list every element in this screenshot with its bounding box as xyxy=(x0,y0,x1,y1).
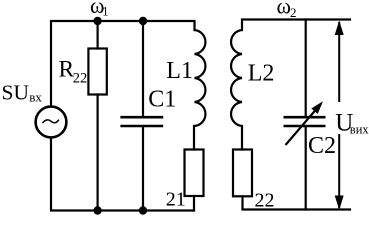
wire C2 bottom xyxy=(305,127,307,209)
wire R22 top xyxy=(96,21,98,49)
wire R22 bottom xyxy=(96,95,98,211)
svg-text:ω: ω xyxy=(277,0,291,19)
inductor L2 xyxy=(231,30,242,126)
svg-text:вих: вих xyxy=(350,123,369,137)
arrow through C2 xyxy=(286,110,317,146)
svg-text:21: 21 xyxy=(166,189,186,211)
capacitor C1 xyxy=(120,117,163,126)
svg-text:22: 22 xyxy=(255,189,275,211)
wire L2 to resistor 22 xyxy=(241,126,243,150)
dimension arrow Uvyh xyxy=(338,22,340,208)
wire C1 bottom xyxy=(142,127,144,210)
svg-text:2: 2 xyxy=(290,5,297,20)
node C junction dot R22 bottom xyxy=(93,206,101,214)
wire top right (node omega2) xyxy=(242,20,350,31)
svg-text:1: 1 xyxy=(102,4,108,18)
wire source bottom xyxy=(51,138,194,211)
svg-text:L2: L2 xyxy=(248,61,275,87)
svg-text:вх: вх xyxy=(29,90,42,105)
node A junction dot omega1 xyxy=(93,17,101,25)
resistor 21 (r1) xyxy=(185,150,204,197)
source U1 SUvx (AC) xyxy=(36,107,67,138)
wire top left horizontal (node omega1) xyxy=(51,21,195,106)
resistor R22 xyxy=(88,49,106,95)
svg-text:C1: C1 xyxy=(148,87,176,113)
svg-text:C2: C2 xyxy=(308,133,336,159)
node D junction dot C1 bottom xyxy=(139,206,147,214)
wire resistor 22 bottom right xyxy=(243,196,351,209)
resistor 22 (r2) xyxy=(233,150,252,197)
svg-text:L1: L1 xyxy=(166,58,193,84)
inductor L1 xyxy=(195,30,206,126)
node B junction dot C1 top xyxy=(139,17,147,25)
wire resistor 21 bottom xyxy=(193,196,195,211)
wire C1 top xyxy=(142,21,144,116)
svg-text:22: 22 xyxy=(73,70,88,86)
wire C2 top xyxy=(305,20,307,117)
wire L1 to resistor 21 xyxy=(193,126,195,150)
svg-text:SU: SU xyxy=(2,81,30,105)
capacitor C2 (variable) xyxy=(284,117,326,126)
